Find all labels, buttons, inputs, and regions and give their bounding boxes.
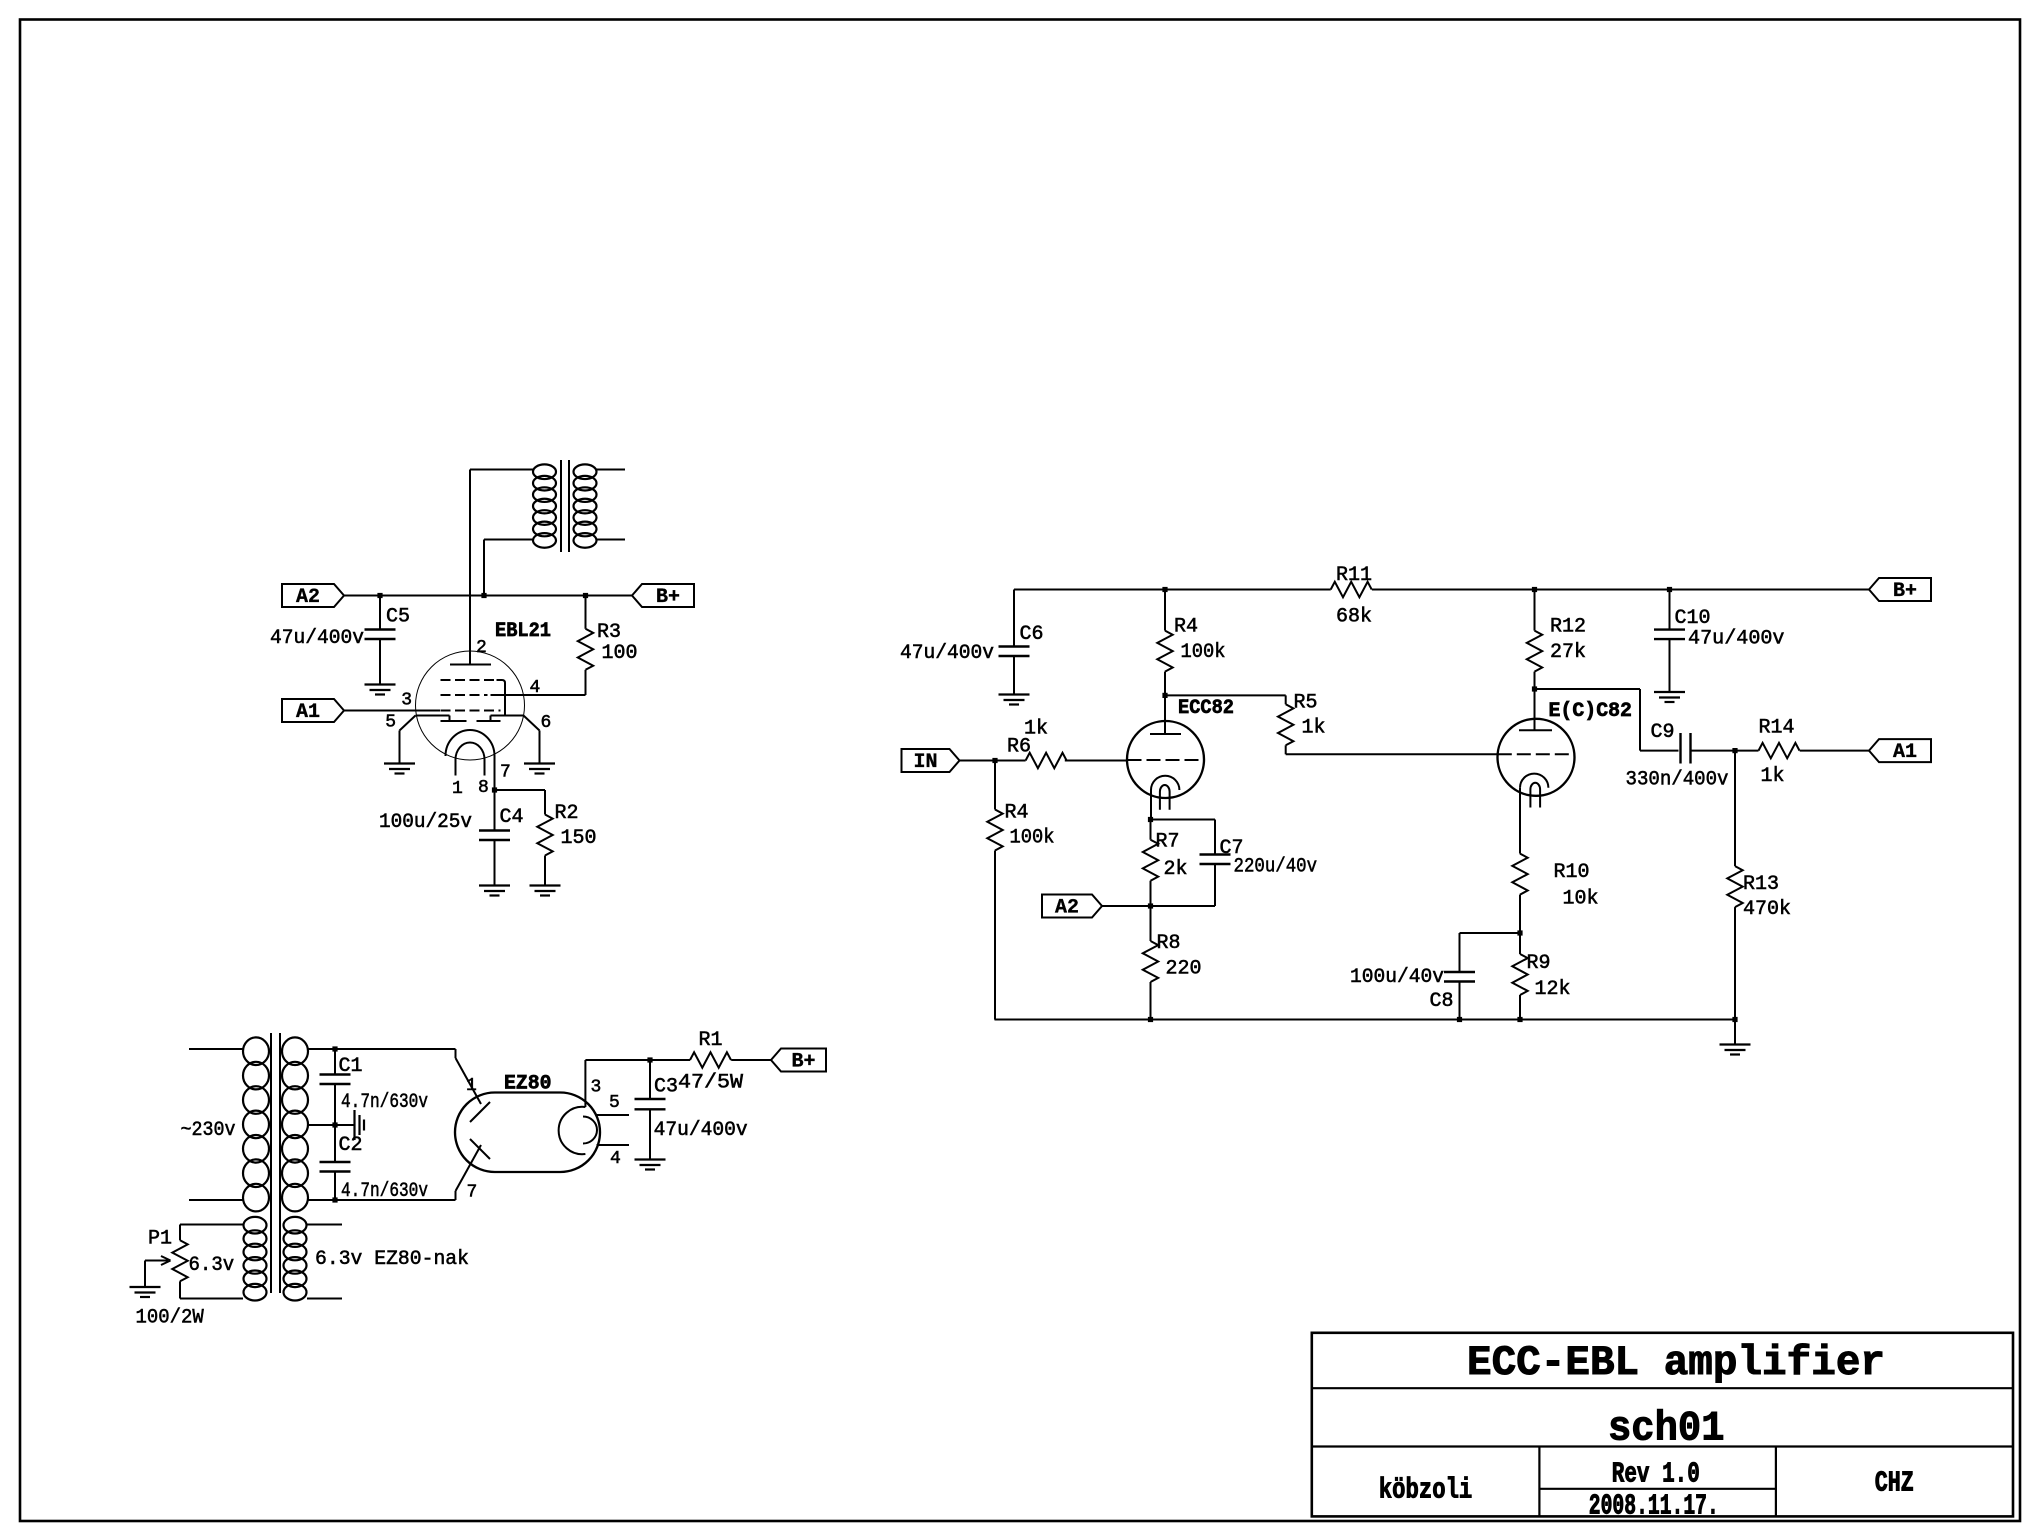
junction C8/ground rail [1457,1017,1462,1022]
ECC82 heater [1160,785,1170,810]
terminal A1 (right) [1869,739,1931,762]
output transformer secondary leads [596,469,625,471]
wire anode node to R5 [1165,694,1286,696]
tube ECC82 envelope [1127,721,1204,798]
svg-text:ECC-EBL amplifier: ECC-EBL amplifier [1467,1340,1885,1387]
wire R6 to ECC82 grid [1065,760,1128,762]
svg-text:EZ80: EZ80 [504,1073,552,1096]
EBL21 inner dome (diode) [456,743,485,760]
EZ80 diode 2 plate [470,1139,490,1159]
secondary bottom lead [307,1199,335,1201]
junction ground-symbol node [1732,1017,1737,1022]
resistor R9 [1519,933,1521,954]
filament left leads [180,1224,243,1226]
svg-text:6.3v: 6.3v [189,1254,235,1277]
svg-text:~230v: ~230v [181,1119,236,1142]
resistor R8 [1150,906,1152,941]
svg-text:A1: A1 [296,701,320,724]
svg-text:3: 3 [401,691,412,711]
svg-text:7: 7 [467,1183,478,1203]
svg-text:470k: 470k [1743,898,1791,921]
secondary top lead [307,1048,335,1050]
svg-text:12k: 12k [1535,978,1571,1001]
svg-text:47u/400v: 47u/400v [270,627,364,650]
junction R8/ground rail [1148,1017,1153,1022]
junction at tube/transformer branch [481,593,486,598]
resistor R14 [1735,750,1759,752]
svg-text:220u/40v: 220u/40v [1234,856,1318,879]
EBL21 anode plate (pin 2) [450,664,491,666]
wire R5 to E(C)C82 grid [1286,753,1498,755]
svg-text:R9: R9 [1527,952,1551,975]
power transformer HV secondary winding [282,1037,308,1065]
capacitor C10 [1669,590,1671,630]
EZ80 diode 2 lead [456,1145,482,1191]
svg-text:220: 220 [1166,958,1202,981]
svg-text:C4: C4 [500,806,524,829]
svg-text:R4: R4 [1005,802,1029,825]
wire anode to output transformer [469,470,471,665]
junction secondary top [332,1046,337,1051]
svg-text:3: 3 [591,1078,602,1098]
junction at ECC82 anode [1162,693,1167,698]
ground below C5 [365,683,396,685]
resistor R12 [1534,590,1536,631]
svg-text:A1: A1 [1893,741,1917,764]
svg-text:R12: R12 [1550,616,1586,639]
svg-text:47u/400v: 47u/400v [1688,628,1785,651]
resistor R4 (anode load) [1164,590,1166,631]
primary leads [189,1048,243,1050]
E(C)C82 heater [1530,783,1540,808]
EBL21 pin 5 lead to ground [400,716,416,731]
svg-text:7: 7 [500,763,511,783]
svg-text:1: 1 [466,1076,477,1096]
svg-text:köbzoli: köbzoli [1379,1474,1473,1507]
resistor R1 [690,1052,731,1067]
svg-text:10k: 10k [1563,888,1599,911]
EBL21 grid row g2 [441,694,488,696]
svg-text:R3: R3 [597,621,621,644]
svg-text:1k: 1k [1761,765,1785,788]
resistor R2 [544,790,546,815]
EZ80 pin 3 lead [584,1060,586,1107]
EBL21 cathode left [416,715,450,717]
terminal IN [902,749,960,772]
output transformer T1 secondary winding [574,464,597,479]
E(C)C82 cathode arc [1520,774,1548,788]
resistor R11 in rail [1331,582,1372,597]
capacitor C3 [649,1060,651,1099]
svg-text:R11: R11 [1336,564,1372,587]
svg-text:5: 5 [385,713,396,733]
capacitor C8 [1459,933,1461,972]
terminal A2 (left) [282,584,344,607]
EZ80 diode 1 plate [470,1102,490,1122]
potentiometer P1 [179,1225,181,1241]
wire B+ to output transformer [483,540,485,596]
resistor R5 [1285,695,1287,704]
ground at pin 6 [524,762,555,764]
terminal B+ (PSU) [771,1049,826,1072]
terminal B+ (left) [632,584,694,607]
wire pin 3 from A1 [344,710,440,712]
ground at P1 wiper [130,1286,161,1288]
ground below C3 [635,1158,666,1160]
svg-text:R8: R8 [1157,932,1181,955]
svg-text:C8: C8 [1429,990,1453,1013]
junction at IN node [992,758,997,763]
svg-text:27k: 27k [1550,641,1586,664]
filament winding right [284,1217,307,1234]
svg-text:100u/40v: 100u/40v [1350,966,1444,989]
svg-text:EBL21: EBL21 [495,620,551,643]
B+ rail wire [1014,589,1331,591]
filament right leads [307,1224,342,1226]
E(C)C82 anode lead and plate [1534,689,1536,730]
EBL21 grid row g3 [441,679,501,681]
svg-text:C2: C2 [339,1134,363,1157]
P1 wiper to ground [144,1261,146,1288]
svg-text:5: 5 [609,1093,620,1113]
wire cathode to C7 [1151,819,1216,821]
svg-text:ECC82: ECC82 [1178,697,1234,720]
svg-text:R13: R13 [1743,873,1779,896]
wire A2 to B+ rail [344,595,632,597]
wire pin 4 to R3 [491,694,586,696]
svg-text:47/5W: 47/5W [678,1072,743,1095]
terminal A1 (left) [282,699,344,722]
junction center tap [332,1122,337,1127]
E(C)C82 grid (dashed) [1498,753,1574,755]
EBL21 diode anode dome [446,730,495,756]
EBL21 pin 8 lead [484,760,486,776]
wire pin8 node to R2 [495,789,546,791]
ground at rail end [1734,1020,1736,1045]
EZ80 pin 5 lead [597,1114,630,1116]
junction at A2 node [1148,903,1153,908]
center tap earth (rotated ground) [335,1124,355,1126]
svg-text:E(C)C82: E(C)C82 [1549,700,1633,723]
EBL21 cathode right [477,720,501,722]
resistor R13 [1734,751,1736,867]
secondary center tap lead [307,1124,335,1126]
junction at C9/R14/R13 [1732,748,1737,753]
terminal B+ (right) [1869,578,1931,601]
ground below C10 [1654,691,1685,693]
ground at pin 5 [384,762,415,764]
capacitor C2 [334,1125,336,1162]
svg-text:B+: B+ [791,1051,815,1074]
ECC82 anode lead and plate [1164,695,1166,734]
svg-text:2: 2 [476,638,487,658]
resistor R6 [1026,753,1067,768]
svg-text:C9: C9 [1650,721,1674,744]
svg-text:68k: 68k [1336,606,1372,629]
resistor R3 [585,596,587,629]
junction at R12 top [1532,587,1537,592]
ground below R2 [530,884,561,886]
junction at C5 [377,593,382,598]
EZ80 cathode arc [559,1107,586,1154]
capacitor C5 [379,596,381,630]
ECC82 cathode arc [1151,776,1179,790]
svg-text:CHZ: CHZ [1875,1467,1914,1500]
EBL21 grid row g1 (pin 3) [441,710,501,712]
junction at R10/R9/C8 [1517,930,1522,935]
wire R1 to B+ [731,1059,771,1061]
svg-text:R10: R10 [1554,861,1590,884]
junction at C3 [647,1057,652,1062]
wire A2 to cathode divider [1102,905,1151,907]
svg-text:2008.11.17.: 2008.11.17. [1589,1490,1719,1523]
resistor R7 [1150,820,1152,840]
svg-text:B+: B+ [1893,580,1917,603]
svg-text:sch01: sch01 [1608,1406,1725,1453]
ECC82 grid (dashed) [1128,759,1204,761]
junction at pin 8 node [492,787,497,792]
svg-text:100k: 100k [1181,641,1226,664]
output transformer T1 core [560,460,562,552]
tube EZ80 envelope [455,1093,600,1173]
svg-text:C6: C6 [1020,623,1044,646]
svg-text:R2: R2 [555,802,579,825]
svg-text:R7: R7 [1156,831,1180,854]
junction at R3 [583,593,588,598]
svg-text:R5: R5 [1294,692,1318,715]
junction at R4 top [1162,587,1167,592]
svg-text:C5: C5 [386,606,410,629]
resistor R10 [1519,853,1521,855]
svg-text:100k: 100k [1010,827,1055,850]
EBL21 pin 1 lead [455,760,457,776]
svg-text:2k: 2k [1164,858,1188,881]
junction secondary bottom [332,1197,337,1202]
svg-text:100u/25v: 100u/25v [379,811,472,834]
svg-text:P1: P1 [148,1228,172,1251]
svg-text:C1: C1 [339,1055,363,1078]
svg-text:6: 6 [541,713,552,733]
wire anode node to C9 [1535,688,1641,690]
tube EBL21 envelope [416,651,525,760]
junction R9/ground rail [1517,1017,1522,1022]
svg-text:C3: C3 [654,1076,678,1099]
svg-text:A2: A2 [296,586,320,609]
ground rail wire [995,1019,1736,1021]
svg-text:150: 150 [561,827,597,850]
terminal A2 (right) [1042,895,1102,918]
EZ80 heater [583,1117,597,1144]
junction at C10 [1667,587,1672,592]
svg-text:R6: R6 [1007,736,1031,759]
EZ80 pin 4 lead [597,1144,630,1146]
svg-text:6.3v EZ80-nak: 6.3v EZ80-nak [315,1248,469,1271]
svg-text:47u/400v: 47u/400v [654,1119,748,1142]
capacitor C6 [1013,590,1015,647]
junction at E(C)C82 anode [1532,686,1537,691]
svg-text:Rev 1.0: Rev 1.0 [1612,1458,1700,1491]
capacitor C4 [494,790,496,831]
output transformer T1 primary winding [533,464,556,479]
svg-text:47u/400v: 47u/400v [900,642,994,665]
svg-text:4: 4 [610,1149,621,1169]
svg-text:330n/400v: 330n/400v [1626,769,1729,792]
title block frame [1312,1333,2013,1517]
capacitor C9 (series) [1679,733,1681,764]
EBL21 pin 6 lead to ground [524,716,540,731]
svg-text:A2: A2 [1055,897,1079,920]
wire to EZ80 pin 1 [335,1048,456,1050]
ground below C6 [999,693,1030,695]
resistor R4 (input) [994,761,996,810]
power transformer core [270,1033,272,1293]
filament winding left [244,1217,267,1234]
power transformer primary winding [243,1037,269,1065]
E(C)C82 cathode lead [1519,788,1521,854]
svg-text:IN: IN [913,751,937,774]
wire to EZ80 pin 7 [335,1199,456,1201]
svg-text:100/2W: 100/2W [136,1307,204,1330]
EBL21 pin 7 lead [494,756,496,790]
junction at ECC82 cathode [1148,817,1153,822]
EBL21 g3 strap to cathode [497,680,506,716]
wire to C8 [1460,932,1521,934]
P1 wiper arrow [145,1260,168,1262]
EZ80 diode 1 lead [456,1058,482,1104]
ground below C4 [479,884,510,886]
wire IN to R6 [960,760,1026,762]
svg-text:R14: R14 [1759,717,1795,740]
tube E(C)C82 envelope [1498,719,1575,796]
ECC82 cathode lead [1150,790,1152,820]
svg-text:1k: 1k [1302,717,1326,740]
capacitor C1 [334,1049,336,1075]
svg-text:1: 1 [452,779,463,799]
svg-text:B+: B+ [656,586,680,609]
svg-text:R1: R1 [699,1029,723,1052]
wire to R1 [650,1059,690,1061]
capacitor C7 [1214,820,1216,855]
svg-text:100: 100 [602,642,638,665]
svg-text:R4: R4 [1174,616,1198,639]
svg-text:8: 8 [478,778,489,798]
